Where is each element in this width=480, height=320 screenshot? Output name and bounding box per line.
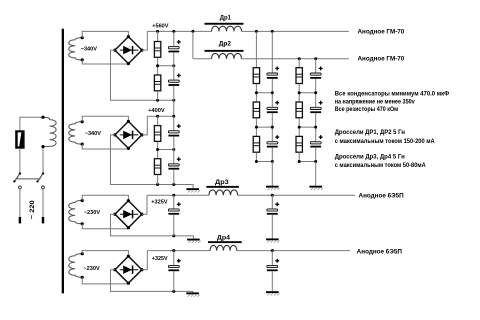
capacitor C9	[310, 101, 322, 113]
junction ch2 bottom rail at R4	[156, 183, 159, 186]
wire winding III bottom to bridge VD2 AC-	[82, 144, 128, 149]
ground GND4	[187, 239, 201, 243]
svg-text:с максимальным током 150-200 м: с максимальным током 150-200 мА	[335, 138, 435, 145]
wire ch2 mid rail	[158, 149, 174, 151]
junction ch2 bottom rail at C4	[172, 183, 175, 186]
wire column2 lower mid rail	[299, 126, 316, 128]
wire bridge VD2 negative to ground rail ch2	[111, 135, 194, 188]
junction rail3 at C11	[172, 194, 175, 197]
transformer secondary winding IV (230V) ch3	[69, 201, 82, 224]
wire winding II top to bridge VD1 AC+	[82, 31, 128, 37]
choke L2 core bar	[205, 50, 244, 52]
wire rail2 down to C8	[315, 59, 317, 73]
junction col2 mid2 R	[298, 126, 301, 129]
junction ch3 ground rail at C11	[172, 234, 175, 237]
wire column2 upper mid rail	[299, 92, 316, 94]
svg-text:Др2: Др2	[219, 41, 232, 48]
bridge rectifier VD3	[113, 199, 143, 229]
wire rail2 down to R8	[298, 59, 300, 68]
wire switch pole 2 to AC terminal 2	[42, 189, 44, 218]
resistor R5	[253, 68, 259, 84]
svg-text:Др4: Др4	[217, 235, 231, 242]
junction col1 mid2 R	[255, 126, 258, 129]
wire column2 to ground	[315, 162, 317, 186]
wire +560V rail left of choke L1	[147, 30, 211, 32]
wire C7 to column1 bottom rail	[271, 147, 273, 161]
wire +400V rail	[147, 115, 174, 117]
wire bridge VD3 positive riser to +325V rail	[142, 195, 147, 214]
bridge rectifier VD4	[113, 255, 143, 285]
wire R10 to column2 bottom rail	[298, 153, 300, 162]
transformer core	[62, 29, 64, 294]
wire C12 to ground	[271, 214, 273, 238]
wire +400V rail to R3	[157, 116, 159, 125]
junction ch4 ground rail at C13	[172, 290, 175, 293]
wire R6 to R7	[255, 118, 257, 136]
wire Dr2 branch drop	[192, 31, 194, 58]
wire +400V rail to C3	[173, 116, 175, 130]
wire ch1 mid rail	[158, 65, 174, 67]
wire C13 to ch4 ground rail	[173, 271, 175, 292]
junction +400V rail at C3	[172, 115, 175, 118]
ground GND6	[186, 292, 200, 296]
junction rail4 at C13	[172, 249, 175, 252]
svg-text:Анодное 6Э5П: Анодное 6Э5П	[359, 192, 405, 199]
capacitor C6	[267, 101, 279, 113]
resistor R3	[154, 126, 160, 142]
junction ch1 bottom rail at R2	[156, 99, 159, 102]
ground GND5	[266, 238, 280, 242]
wire C9 to C10	[315, 113, 317, 142]
svg-text:+325V: +325V	[152, 256, 168, 262]
capacitor C8	[310, 66, 322, 78]
junction +560V rail at Dr2 branch	[191, 30, 194, 33]
svg-text:+325V: +325V	[151, 199, 167, 205]
svg-text:Дроссели ДР1, ДР2 5 Гн: Дроссели ДР1, ДР2 5 Гн	[335, 129, 406, 136]
wire C2 down to +400V rail	[173, 86, 175, 117]
ground GND1	[266, 186, 280, 190]
svg-text:Все конденсаторы минимум 470.0: Все конденсаторы минимум 470.0 мкФ	[335, 91, 450, 98]
capacitor C4	[168, 157, 180, 169]
ground GND7	[266, 291, 280, 295]
junction col2 mid1 C	[314, 91, 317, 94]
wire R3 to R4	[157, 142, 159, 159]
bridge rectifier VD2	[113, 120, 143, 150]
svg-text:Др3: Др3	[215, 179, 229, 186]
junction rail 1 at R5 column	[255, 30, 258, 33]
resistor R8	[296, 68, 302, 84]
resistor R9	[296, 102, 302, 118]
wire +325V rail ch4 right of choke L4 to output	[237, 250, 350, 252]
wire winding V bottom to bridge VD4 AC-	[82, 277, 128, 284]
choke L3	[209, 190, 238, 195]
wire +560V rail to R1	[157, 31, 159, 41]
AC input terminal 2	[42, 217, 44, 223]
capacitor C13	[168, 259, 180, 271]
wire winding IV top to bridge VD3 AC+	[82, 195, 128, 201]
wire R7 to column1 bottom rail	[255, 153, 257, 162]
resistor R6	[253, 102, 259, 118]
capacitor C10	[310, 135, 322, 147]
choke L3 core bar	[206, 186, 239, 188]
ground GND3	[186, 188, 200, 192]
junction rail4 at C14	[271, 249, 274, 252]
ground GND2	[309, 186, 323, 190]
junction col2 bottom R	[298, 160, 301, 163]
junction col2 mid1 R	[298, 91, 301, 94]
choke L2	[212, 53, 242, 58]
svg-text:+560V: +560V	[152, 24, 168, 30]
wire C3 to C4	[173, 136, 175, 163]
wire rail 2 left of choke L2	[193, 58, 212, 60]
capacitor C2	[168, 74, 180, 86]
wire rail1 down to C5	[271, 31, 273, 72]
resistor R2	[154, 75, 160, 91]
junction ch1 bottom rail at C2	[172, 99, 175, 102]
wire winding III top to bridge VD2 AC+	[82, 116, 128, 122]
wire C1 to C2	[173, 52, 175, 80]
choke L4	[210, 245, 237, 250]
wire fuse bottom to switch pole 1	[19, 148, 21, 173]
choke L4 core bar	[208, 241, 242, 243]
resistor R10	[296, 136, 302, 152]
wire fuse top to primary winding top	[20, 117, 43, 131]
svg-text:~230V: ~230V	[84, 210, 100, 216]
choke L1 core bar	[205, 23, 244, 25]
capacitor C14	[267, 259, 279, 271]
junction ch1 mid rail at C	[172, 64, 175, 67]
junction +560V rail at C1	[172, 30, 175, 33]
svg-text:~340V: ~340V	[81, 46, 97, 52]
wire winding II bottom to bridge VD1 AC-	[82, 60, 128, 64]
wire R8 to R9	[298, 84, 300, 102]
capacitor C7	[267, 135, 279, 147]
transformer secondary winding V (230V) ch4	[69, 254, 82, 278]
resistor R4	[154, 159, 160, 175]
wire bridge VD1 positive riser to +560V rail	[142, 31, 147, 50]
svg-text:Др1: Др1	[220, 14, 232, 21]
wire primary winding bottom to switch pole 2	[42, 147, 44, 174]
junction col1 bottom C	[271, 160, 274, 163]
wire bridge VD2 positive riser to +400V rail	[142, 116, 147, 135]
svg-text:~ 220: ~ 220	[29, 200, 36, 219]
svg-text:Анодное ГМ-70: Анодное ГМ-70	[358, 56, 405, 63]
svg-text:~230V: ~230V	[83, 266, 99, 272]
capacitor C1	[168, 40, 180, 52]
junction ch2 mid rail at C	[172, 148, 175, 151]
capacitor C5	[267, 66, 279, 78]
switch SA1 gang link bar	[17, 178, 41, 180]
junction col2 bottom C	[314, 160, 317, 163]
switch SA1 pole 2	[36, 172, 44, 188]
wire rail1 down to R5	[255, 31, 257, 67]
junction col2 mid2 C	[314, 126, 317, 129]
wire winding IV bottom to bridge VD3 AC-	[82, 224, 128, 229]
svg-text:Дроссели Др3, Др4 5 Гн: Дроссели Др3, Др4 5 Гн	[335, 154, 405, 161]
switch SA1 pole 1	[13, 172, 21, 188]
junction +400V rail at R3	[156, 115, 159, 118]
junction ch2 mid rail at R	[156, 148, 159, 151]
wire R4 to ch2 bottom rail	[157, 175, 159, 185]
wire R1 to R2 through mid node	[157, 58, 159, 75]
fuse FU1	[16, 131, 24, 148]
wire C4 to ch2 bottom rail	[173, 169, 175, 184]
wire rail 2 right of choke L2 to output	[242, 58, 350, 60]
wire C10 to column2 bottom rail	[315, 147, 317, 161]
junction col1 mid2 C	[271, 126, 274, 129]
wire R5 to R6	[255, 84, 257, 102]
wire column1 bottom rail	[256, 161, 272, 163]
wire bridge VD3 negative to ground rail ch3	[111, 214, 194, 238]
wire column1 lower mid rail	[256, 126, 272, 128]
wire C5 to C6	[271, 79, 273, 108]
wire C11 to ch3 ground rail	[173, 214, 175, 236]
junction rail 1 at C5 column	[271, 30, 274, 33]
svg-text:Анодное ГМ-70: Анодное ГМ-70	[358, 28, 405, 35]
junction col1 bottom R	[255, 160, 258, 163]
wire C14 to ground	[271, 271, 273, 291]
wire column1 to ground	[271, 162, 273, 186]
wire C6 to C7	[271, 113, 273, 142]
resistor R1	[154, 42, 160, 58]
wire rail3 to C11	[173, 195, 175, 208]
svg-text:+400V: +400V	[148, 108, 165, 114]
svg-text:на напряжение не менее 350v: на напряжение не менее 350v	[335, 98, 415, 105]
svg-text:Анодное 6Э5П: Анодное 6Э5П	[357, 249, 403, 256]
transformer secondary winding II (340V) ch1	[69, 38, 82, 60]
wire +560V rail right of choke L1 to output	[242, 30, 350, 32]
capacitor C3	[168, 124, 180, 136]
transformer primary winding	[43, 117, 56, 146]
wire rail4 to C14	[271, 251, 273, 266]
junction col1 mid1 R	[255, 91, 258, 94]
AC input terminal 1	[19, 217, 21, 223]
wire R2 to ch1 bottom rail	[157, 91, 159, 100]
wire bridge VD4 positive riser to +325V rail	[142, 251, 147, 270]
junction ch1 mid rail at R	[156, 64, 159, 67]
wire +325V rail left of choke L3	[147, 194, 209, 196]
junction +560V rail at R1	[156, 30, 159, 33]
bridge rectifier VD1	[113, 35, 143, 65]
transformer secondary winding III (340V) ch2	[69, 122, 82, 144]
wire +325V rail ch4 left of choke L4	[147, 250, 210, 252]
resistor R7	[253, 136, 259, 152]
wire switch pole 1 to AC terminal 1	[19, 189, 21, 218]
junction rail3 at C12	[271, 194, 274, 197]
wire R9 to R10	[298, 118, 300, 136]
junction col1 mid1 C	[271, 91, 274, 94]
capacitor C11	[168, 202, 180, 214]
wire C8 to C9	[315, 79, 317, 108]
wire +325V rail right of choke L3 to output	[238, 194, 355, 196]
wire rail3 to C12	[271, 195, 273, 208]
wire bridge VD4 negative to ground rail ch4	[111, 270, 193, 293]
wire column2 bottom rail	[299, 161, 316, 163]
svg-text:Все резисторы 470 кОм: Все резисторы 470 кОм	[335, 106, 399, 113]
junction rail 2 at C8 column	[314, 57, 317, 60]
svg-text:с максимальным током 50-80мА: с максимальным током 50-80мА	[335, 162, 426, 169]
capacitor C12	[267, 202, 279, 214]
junction rail 2 at R8 column	[298, 57, 301, 60]
choke L1	[212, 26, 242, 31]
svg-text:~340V: ~340V	[85, 131, 101, 137]
wire bridge VD1 negative to +400V node (ch1 bottom rail)	[111, 50, 174, 100]
wire +560V rail to C1	[173, 31, 175, 46]
wire winding V top to bridge VD4 AC+	[82, 251, 128, 257]
wire column1 upper mid rail	[256, 92, 272, 94]
wire rail4 to C13	[173, 251, 175, 266]
